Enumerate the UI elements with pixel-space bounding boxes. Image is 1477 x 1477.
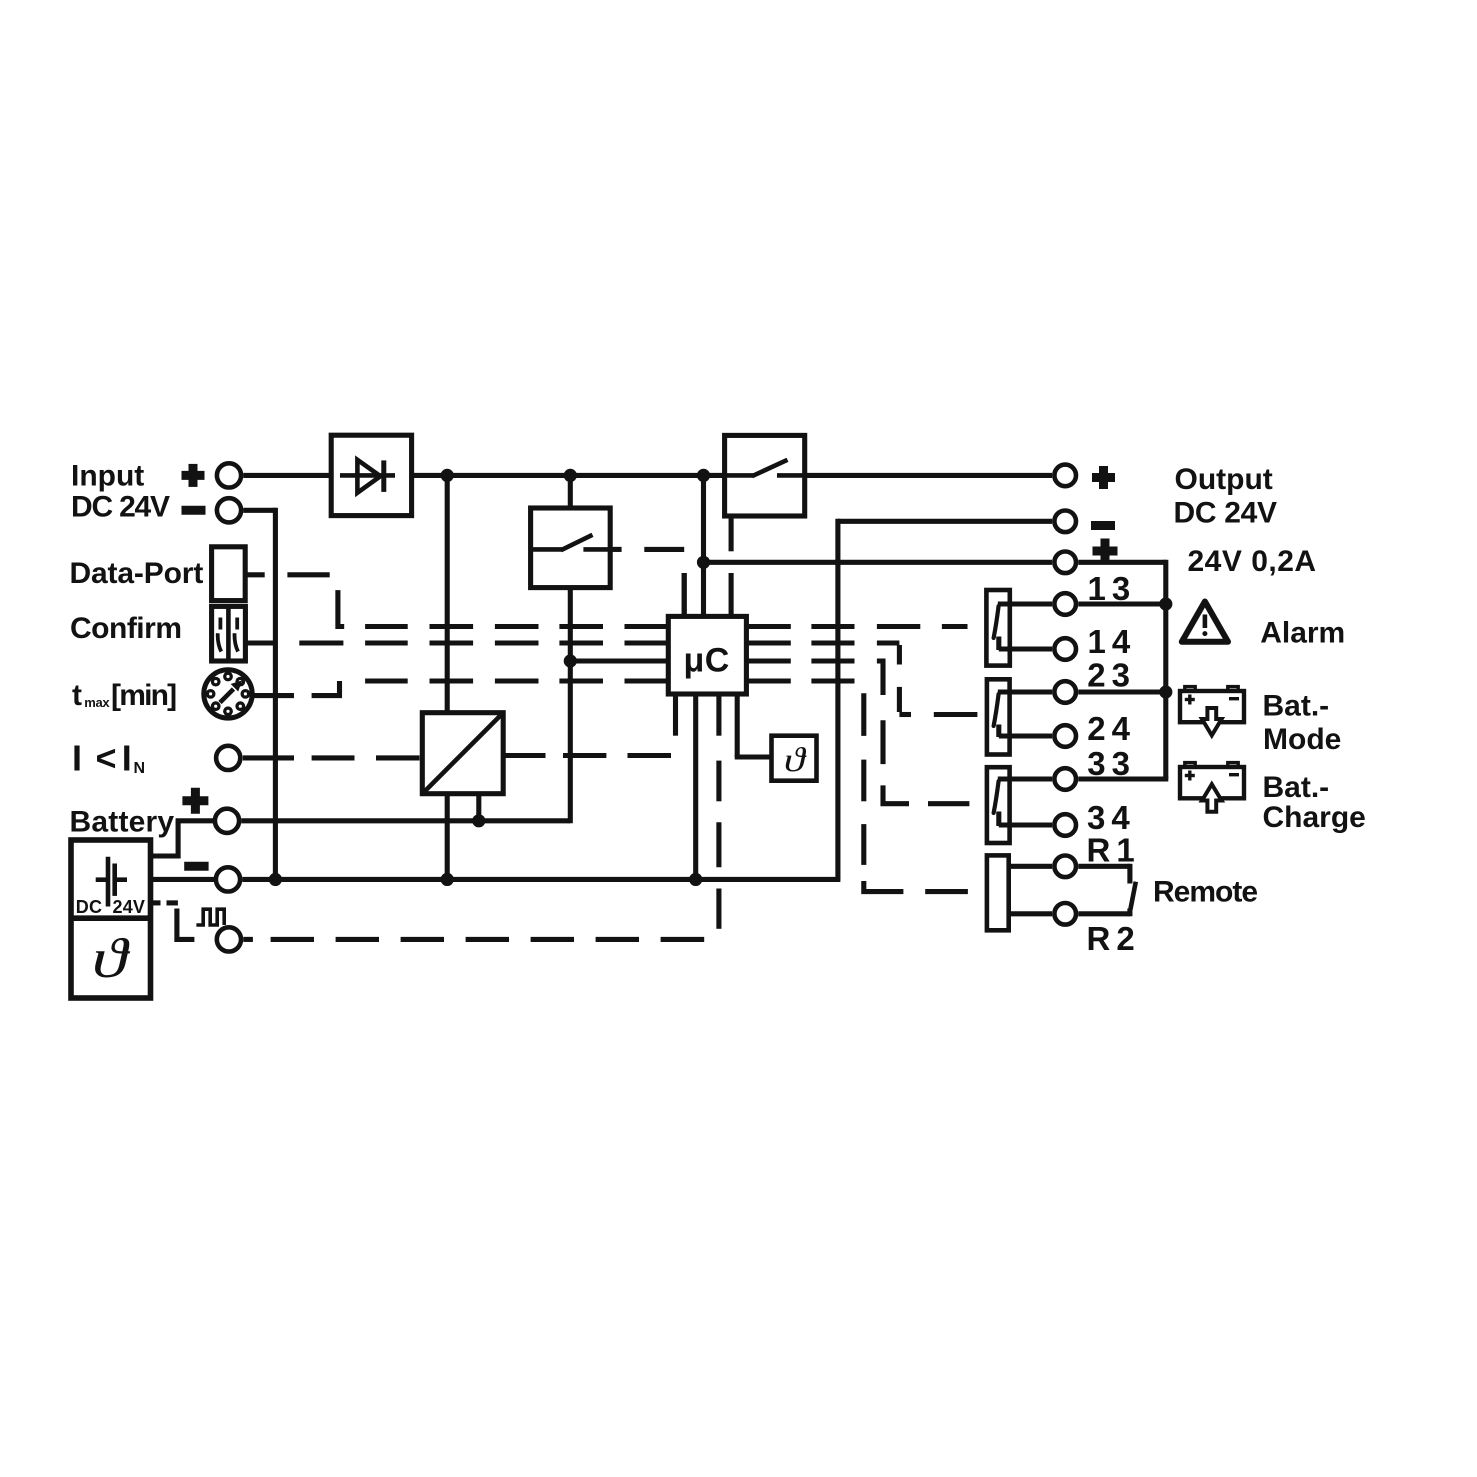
svg-text:ϑ: ϑ bbox=[784, 742, 807, 779]
svg-text:24: 24 bbox=[1087, 710, 1136, 747]
svg-text:μC: μC bbox=[684, 641, 730, 679]
svg-text:24V 0,2A: 24V 0,2A bbox=[1188, 545, 1317, 578]
svg-text:Remote: Remote bbox=[1153, 875, 1257, 908]
svg-text:DC 24V: DC 24V bbox=[1174, 496, 1278, 529]
svg-text:Alarm: Alarm bbox=[1260, 617, 1345, 650]
svg-text:R1: R1 bbox=[1087, 832, 1141, 869]
svg-text:Confirm: Confirm bbox=[70, 612, 182, 645]
svg-text:33: 33 bbox=[1087, 745, 1136, 782]
svg-text:Data-Port: Data-Port bbox=[70, 557, 204, 590]
svg-text:<: < bbox=[96, 737, 117, 778]
svg-text:DC: DC bbox=[76, 897, 102, 917]
svg-text:DC 24V: DC 24V bbox=[71, 491, 170, 524]
svg-text:34: 34 bbox=[1087, 799, 1136, 836]
svg-text:Bat.-: Bat.- bbox=[1263, 690, 1330, 723]
svg-text:Charge: Charge bbox=[1263, 801, 1366, 834]
svg-text:I: I bbox=[72, 737, 82, 778]
svg-text:Mode: Mode bbox=[1263, 723, 1341, 756]
svg-text:max: max bbox=[84, 695, 110, 710]
svg-text:Battery: Battery bbox=[70, 805, 175, 838]
svg-text:24V: 24V bbox=[113, 897, 146, 917]
svg-text:14: 14 bbox=[1088, 623, 1137, 660]
svg-text:Input: Input bbox=[71, 459, 144, 492]
svg-text:[min]: [min] bbox=[111, 679, 176, 712]
svg-text:I: I bbox=[122, 737, 132, 778]
svg-text:ϑ: ϑ bbox=[92, 927, 131, 989]
svg-text:23: 23 bbox=[1087, 656, 1136, 693]
svg-text:R2: R2 bbox=[1087, 920, 1141, 957]
svg-text:Output: Output bbox=[1175, 463, 1273, 496]
svg-text:N: N bbox=[134, 760, 146, 777]
svg-text:13: 13 bbox=[1088, 570, 1137, 607]
svg-text:t: t bbox=[72, 679, 82, 712]
svg-text:Bat.-: Bat.- bbox=[1263, 771, 1330, 804]
